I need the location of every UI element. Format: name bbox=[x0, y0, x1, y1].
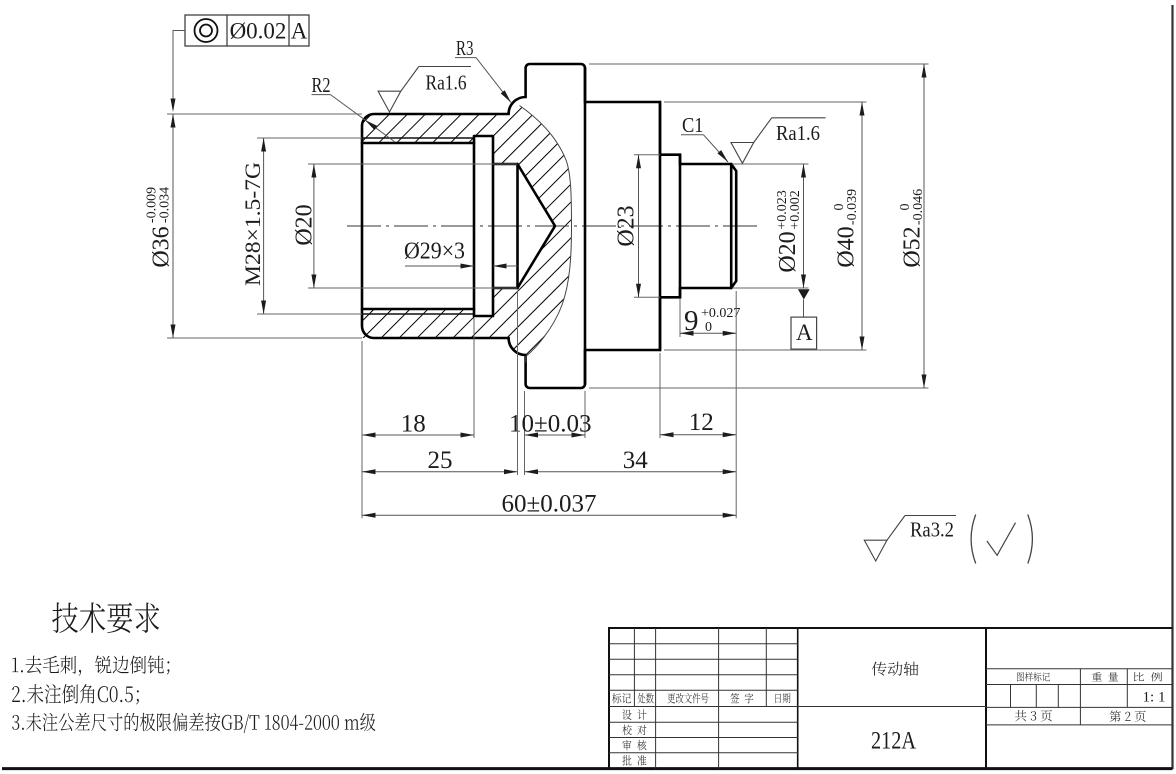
svg-text:Ø20: Ø20 bbox=[292, 204, 318, 245]
internal thread major dia lines (thin) bbox=[362, 137, 474, 139]
tech req item 1 bbox=[12, 655, 169, 675]
label shen-he bbox=[622, 740, 646, 750]
label pi-zhun bbox=[622, 755, 646, 766]
sheet number di 2 ye bbox=[1110, 710, 1146, 721]
svg-text:C1: C1 bbox=[682, 113, 704, 137]
svg-text:10±0.03: 10±0.03 bbox=[509, 411, 591, 438]
dimension 18 bbox=[473, 318, 475, 438]
svg-text:-0.046: -0.046 bbox=[911, 189, 926, 225]
svg-text:1: 1: 1: 1 bbox=[1143, 690, 1166, 706]
drawing sheet bottom border bbox=[2, 767, 1173, 770]
label bi-li (scale) bbox=[1134, 672, 1162, 681]
svg-text:0: 0 bbox=[705, 320, 712, 335]
parentheses with basic symbol bbox=[971, 515, 976, 564]
dimension phi23 bbox=[634, 154, 660, 156]
drawing sheet right border bbox=[1171, 5, 1173, 769]
part name chuan-dong-zhou (drive shaft) bbox=[872, 662, 919, 676]
section hatching (cut material) bbox=[362, 106, 572, 363]
label ri-qi bbox=[776, 693, 791, 703]
svg-text:Ra3.2: Ra3.2 bbox=[910, 518, 954, 542]
dimension 60 +/-0.037 bbox=[735, 291, 737, 518]
label jiao-dui bbox=[622, 725, 646, 736]
svg-text:Ø36: Ø36 bbox=[149, 226, 175, 267]
svg-text:-0.039: -0.039 bbox=[845, 189, 860, 225]
svg-text:Ø0.02: Ø0.02 bbox=[230, 19, 287, 44]
svg-text:R3: R3 bbox=[456, 36, 474, 60]
label zhong-liang (weight) bbox=[1092, 672, 1118, 681]
svg-text:Ø23: Ø23 bbox=[614, 205, 640, 246]
svg-text:60±0.037: 60±0.037 bbox=[502, 491, 597, 518]
dimension 25 bbox=[361, 341, 363, 518]
bore cone start edge bbox=[516, 164, 519, 288]
svg-text:Ra1.6: Ra1.6 bbox=[426, 71, 467, 95]
svg-text:A: A bbox=[291, 19, 308, 44]
svg-text:Ø20: Ø20 bbox=[775, 231, 801, 272]
dimension 12 bbox=[659, 353, 661, 438]
dimension phi20 bore bbox=[308, 163, 518, 165]
label chu-shu bbox=[638, 693, 654, 704]
svg-text:Ø52: Ø52 bbox=[900, 226, 926, 267]
flange right face edge bbox=[584, 68, 587, 384]
svg-text:Ø40: Ø40 bbox=[834, 226, 860, 267]
center line (axis) bbox=[347, 225, 758, 227]
dimension phi36 with tolerance bbox=[167, 113, 362, 115]
svg-text:9: 9 bbox=[684, 305, 699, 337]
svg-text:R2: R2 bbox=[312, 73, 331, 97]
datum A symbol bbox=[798, 289, 810, 299]
svg-text:12: 12 bbox=[689, 409, 714, 436]
general surface finish Ra3.2 (other surfaces) bbox=[864, 540, 887, 561]
label tu-yang-biao-ji bbox=[1017, 672, 1050, 681]
svg-text:+0.027: +0.027 bbox=[701, 306, 740, 321]
label biao-ji bbox=[612, 693, 631, 703]
tolerance frame leader to phi36 bbox=[173, 31, 185, 101]
tech req item 2 bbox=[12, 684, 139, 704]
surface finish Ra1.6 on right journal bbox=[731, 143, 754, 164]
label qian-zi bbox=[730, 693, 753, 703]
phi20 bore lines bbox=[493, 163, 518, 166]
svg-text:Ø29×3: Ø29×3 bbox=[404, 239, 465, 265]
dimension 9 +0.027/0 bbox=[679, 299, 681, 337]
dimension phi52 0/-0.046 bbox=[589, 63, 929, 65]
label she-ji bbox=[622, 709, 646, 719]
internal thread minor dia lines (thick) bbox=[362, 142, 474, 145]
dimension phi20 +0.023/+0.002 bbox=[733, 163, 809, 165]
sheet count gong 3 ye bbox=[1015, 710, 1052, 721]
phi23 collar right face edge bbox=[679, 155, 682, 298]
chamfer edge circle at right end bbox=[730, 164, 733, 288]
title block grid bbox=[609, 628, 1173, 769]
title block outer frame bbox=[609, 628, 986, 769]
svg-text:34: 34 bbox=[623, 447, 649, 474]
svg-text:Ra1.6: Ra1.6 bbox=[776, 121, 820, 145]
drill cone bbox=[518, 164, 556, 288]
dimension 10 +/-0.03 bbox=[524, 391, 526, 475]
svg-text:M28×1.5-7G: M28×1.5-7G bbox=[240, 162, 265, 286]
svg-text:-0.034: -0.034 bbox=[158, 187, 173, 223]
dimension phi40 0/-0.039 bbox=[664, 101, 867, 103]
shaft outline: sleeve + flange + steps silhouette bbox=[362, 64, 736, 388]
dimension 34 bbox=[525, 471, 737, 473]
break line (local section boundary) bbox=[520, 106, 572, 363]
label geng-gai-wen-jian-hao bbox=[668, 693, 709, 703]
svg-text:A: A bbox=[796, 320, 813, 345]
svg-text:212A: 212A bbox=[871, 728, 916, 755]
tech req item 3 bbox=[12, 713, 375, 733]
geometric tolerance frame (concentricity 0.02 A) bbox=[185, 15, 309, 46]
phi40 right face edge bbox=[659, 102, 662, 350]
svg-text:25: 25 bbox=[428, 447, 453, 474]
dimension M28x1.5-7G internal thread bbox=[257, 137, 362, 139]
dimension phi29x3 groove bbox=[405, 265, 474, 267]
svg-text:+0.002: +0.002 bbox=[788, 190, 803, 229]
tech requirements title ji-shu-yao-qiu bbox=[52, 602, 159, 633]
svg-text:18: 18 bbox=[401, 411, 426, 438]
thread relief groove phi29x3 bbox=[474, 136, 493, 316]
surface finish Ra1.6 on sleeve OD bbox=[378, 91, 401, 112]
